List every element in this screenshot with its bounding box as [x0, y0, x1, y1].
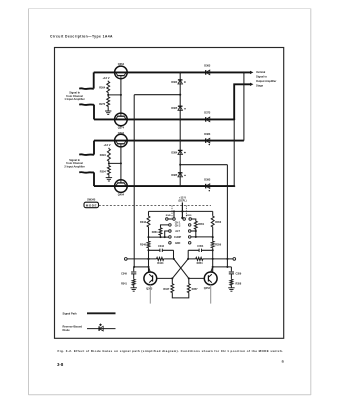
node row3/R351: [195, 230, 197, 232]
svg-text:D385: D385: [171, 174, 178, 177]
resistor R346: [147, 241, 150, 249]
wire wafer link left dashed: [171, 205, 173, 217]
svg-text:R354: R354: [197, 262, 204, 265]
wire R347 lead: [171, 278, 173, 283]
pin mark D384: [184, 152, 186, 154]
svg-text:R264: R264: [99, 86, 106, 89]
wire Q353 base: [189, 277, 205, 279]
page top edge: [29, 8, 311, 10]
wire res line left: [127, 258, 174, 260]
wire ch1 upper input squiggle: [79, 87, 94, 90]
svg-text:R351: R351: [198, 223, 205, 226]
node res line/diag left: [173, 258, 175, 260]
wire ch2 output riser: [243, 72, 245, 140]
wire diagonal left-to-right: [174, 259, 189, 279]
wire row1 to R351: [191, 219, 196, 221]
node gate drive left end: [133, 266, 135, 268]
wire row2 to R361: [161, 225, 169, 227]
svg-text:Output Amplifier: Output Amplifier: [256, 79, 276, 83]
wire Q353 emitter (fades): [210, 285, 212, 304]
svg-text:Q343: Q343: [146, 288, 153, 291]
svg-text:R270: R270: [99, 103, 106, 106]
resistor R294: [107, 148, 110, 163]
svg-text:R345: R345: [166, 214, 172, 217]
svg-text:C344: C344: [158, 245, 165, 248]
node res line/right branch: [212, 258, 214, 260]
wire ch1 upper input riser: [93, 72, 95, 88]
node res line/left branch: [147, 258, 149, 260]
resistor R358: [230, 279, 233, 286]
wire rail to row1 left stub: [173, 211, 175, 217]
svg-text:R304: R304: [100, 171, 107, 174]
wire left gate drive (to flip-flop): [133, 95, 135, 267]
wire base bracket: [172, 294, 189, 298]
wire ch1 lower input squiggle: [79, 103, 94, 106]
node wire1/diode column: [179, 71, 181, 73]
wire right collector branch: [212, 211, 214, 272]
pin mark D365: [184, 108, 185, 109]
svg-text:Q353: Q353: [204, 287, 211, 290]
svg-text:D373: D373: [204, 112, 211, 115]
node base right/R357: [188, 277, 190, 279]
diode D365: [178, 106, 183, 110]
svg-text:Circuit Description—Type 1A4A: Circuit Description—Type 1A4A: [50, 35, 113, 39]
node gate bias tap upper: [179, 94, 181, 96]
svg-text:R341: R341: [121, 282, 127, 285]
diode D363: [206, 70, 210, 75]
transistor Q394: [115, 134, 128, 147]
resistor R354: [196, 257, 204, 260]
contact row5 right: [188, 242, 191, 245]
svg-text:D383: D383: [204, 133, 211, 136]
wire +12V rail: [149, 210, 213, 212]
figure frame: [55, 48, 284, 339]
page bottom edge: [29, 394, 311, 396]
wire mode switch dashed gang line: [99, 204, 211, 206]
ground ch2: [106, 178, 112, 181]
diode D364: [178, 80, 183, 84]
capacitor C354: [199, 249, 201, 252]
node base left/R347: [171, 277, 173, 279]
wire lower gate bias tap: [180, 164, 227, 166]
transistor Q374: [115, 113, 128, 126]
wire supply stub: [181, 202, 183, 217]
wire C359 to R358: [230, 274, 232, 279]
svg-text:Q364: Q364: [118, 62, 125, 66]
svg-text:D365: D365: [171, 107, 178, 110]
pin mark D364: [184, 81, 186, 83]
contact row1 d: [189, 218, 192, 221]
node gate bias tap lower: [179, 164, 181, 166]
transistor Q353: [204, 272, 217, 285]
wire R351 tail: [195, 230, 197, 237]
capacitor C349: [131, 272, 136, 274]
wire wafer link right dashed: [185, 205, 187, 217]
page right edge: [310, 9, 312, 396]
wire bias junction ch1: [108, 94, 121, 96]
node wire4/return riser: [233, 185, 235, 187]
node left branch/cap line: [147, 249, 149, 251]
arrow output plus: [250, 71, 253, 74]
node res line/diag right: [187, 258, 189, 260]
wire Q353 collector stub: [211, 267, 213, 272]
pin mark D385: [184, 175, 185, 176]
wire diagonal right-to-left: [172, 259, 188, 279]
svg-text:R355: R355: [186, 215, 192, 217]
svg-text:Signal to: Signal to: [256, 74, 267, 78]
wire Q343 base: [156, 277, 172, 279]
node supply/wiper: [181, 217, 183, 219]
transistor Q404: [115, 180, 128, 193]
transistor Q343: [144, 272, 157, 285]
legend heavy line: [87, 312, 116, 314]
wire row3 left jog: [165, 231, 169, 237]
wire cap line left: [149, 250, 174, 259]
contact row5 left: [169, 242, 172, 245]
pin mark D383: [209, 144, 210, 145]
wire 2 (CH1 - signal line): [94, 118, 235, 120]
svg-text:CHOP: CHOP: [174, 236, 182, 239]
wire C349 to R341: [133, 274, 135, 279]
svg-text:+12 V: +12 V: [102, 76, 109, 80]
transistor Q364: [115, 66, 128, 79]
svg-text:R357: R357: [192, 288, 199, 291]
legend diode symbol: [99, 326, 103, 331]
node res line/gate riser: [226, 258, 228, 260]
wire ch2 upper input riser: [93, 141, 95, 155]
resistor R347: [171, 283, 174, 294]
wire R341 to ground: [133, 286, 135, 288]
svg-text:Fig. 3-2. Effect of Diode Gate: Fig. 3-2. Effect of Diode Gates on signa…: [58, 349, 284, 353]
svg-text:3-8: 3-8: [57, 362, 64, 367]
node left branch/res line: [147, 258, 149, 260]
svg-text:R356: R356: [215, 244, 222, 247]
diode D385: [178, 173, 183, 177]
node right branch/cap line: [212, 249, 214, 251]
svg-text:(DCPL): (DCPL): [178, 200, 186, 203]
wire gate column: [179, 72, 181, 186]
resistor R304: [107, 165, 110, 176]
svg-text:C354: C354: [197, 245, 204, 248]
resistor R343: [147, 215, 150, 228]
node wire4/diode column: [179, 185, 181, 187]
svg-text:Q404: Q404: [118, 192, 125, 196]
wire Q364 collector to Q374: [120, 79, 122, 114]
svg-text:C359: C359: [236, 273, 242, 276]
wire R358 to ground: [230, 286, 232, 288]
resistor R344: [157, 257, 165, 260]
node left branch/switch line: [147, 236, 149, 238]
wire R361 tail: [160, 236, 162, 237]
node gate drive right end: [226, 266, 228, 268]
wire R304 to ground: [108, 176, 110, 178]
wire ch1 lower input riser: [93, 105, 95, 120]
legend reverse mark: [99, 323, 102, 326]
node wire2/return riser: [233, 118, 235, 120]
node bias/collector ch1: [120, 94, 122, 96]
contact row1 c: [183, 218, 186, 221]
resistor R353: [211, 215, 214, 228]
resistor R356: [211, 241, 214, 249]
svg-text:R358: R358: [236, 282, 242, 285]
diode D393: [206, 184, 210, 189]
ground ch1: [105, 111, 111, 114]
svg-text:SW345: SW345: [87, 199, 96, 202]
resistor R264: [107, 81, 110, 94]
terminal right bias: [233, 258, 236, 261]
wire bias junction ch2: [109, 162, 121, 164]
RC network left: wire stub: [133, 267, 135, 271]
resistor R351: [194, 221, 197, 230]
svg-text:Q394: Q394: [118, 131, 125, 135]
svg-text:R346: R346: [140, 244, 147, 247]
wire row1 pair link: [168, 218, 173, 220]
wire switch line left: [149, 236, 169, 238]
svg-text:D364: D364: [171, 81, 178, 84]
node left collector: [147, 266, 149, 268]
arrow output minus: [250, 83, 253, 86]
node wire3/diode column: [179, 140, 181, 142]
svg-text:ADD: ADD: [175, 242, 181, 245]
node supply/rail: [181, 210, 183, 212]
capacitor C359: [229, 272, 234, 274]
wire res line right: [188, 258, 233, 260]
legend diode line: [87, 328, 116, 330]
node R294/R304: [108, 162, 110, 164]
svg-text:MODE: MODE: [86, 204, 97, 208]
resistor R361: [159, 227, 162, 236]
svg-text:R344: R344: [157, 262, 164, 265]
node row3 jog/switch line: [164, 236, 166, 238]
svg-text:Stage: Stage: [256, 84, 264, 88]
svg-text:D393: D393: [204, 179, 211, 182]
node wire2/diode column: [179, 118, 181, 120]
svg-text:+12 V: +12 V: [103, 143, 110, 147]
wire Q343 collector stub: [149, 267, 151, 272]
contact row4 right: [188, 236, 191, 239]
node R361/switch line: [159, 236, 161, 238]
svg-text:2 Input Amplifier: 2 Input Amplifier: [64, 165, 84, 169]
wire Q394 collector to Q404: [120, 147, 122, 180]
node rail/row1 left stub: [173, 210, 175, 212]
svg-text:ALT: ALT: [175, 230, 180, 233]
wire left collector branch: [148, 211, 150, 272]
wire 1 (CH1 + signal line): [94, 71, 251, 73]
svg-text:Signal Path: Signal Path: [63, 311, 78, 315]
page left edge: [28, 9, 30, 396]
ground right RC: [228, 288, 234, 291]
wire R357 lead: [188, 278, 190, 283]
wire ch2 lower input squiggle: [79, 171, 94, 174]
wire 3 (CH2 + signal line): [94, 140, 244, 142]
resistor R270: [107, 96, 110, 107]
wire cap line right: [188, 250, 213, 259]
wire ch2 lower input riser: [93, 172, 95, 186]
wire 4 (CH2 - signal line): [94, 185, 234, 187]
node bias/collector ch2: [120, 162, 122, 164]
svg-text:Diode: Diode: [63, 328, 71, 332]
wire upper gate bias tap: [134, 94, 180, 96]
svg-text:Vertical: Vertical: [256, 70, 266, 74]
resistor R357: [187, 283, 190, 294]
wire right collector node: [213, 266, 232, 268]
diode D384: [178, 150, 183, 154]
wire left collector node: [134, 266, 148, 268]
node R264/R270: [107, 94, 109, 96]
pin mark D393: [209, 190, 210, 191]
svg-text:R353: R353: [215, 221, 222, 224]
wire row3 right to R351: [191, 230, 196, 232]
wire return riser upper (bold): [234, 84, 250, 119]
wire ch2 upper input squiggle: [79, 153, 94, 156]
contact row3 right: [188, 230, 191, 233]
svg-text:CH 2: CH 2: [175, 225, 181, 228]
svg-text:1 Input Amplifier: 1 Input Amplifier: [64, 97, 84, 101]
terminal left bias: [124, 258, 127, 261]
node wire1/output riser: [243, 71, 245, 73]
wire Q343 emitter (fades): [149, 285, 151, 304]
diode D373: [206, 117, 210, 122]
ground left RC: [131, 288, 137, 291]
wire return riser lower: [233, 119, 235, 186]
capacitor C344: [160, 249, 162, 252]
svg-text:R361: R361: [152, 231, 159, 234]
svg-text:Q374: Q374: [118, 125, 125, 129]
contact row3 left: [169, 230, 172, 233]
contact row1 b: [173, 218, 176, 221]
node R351/switch line: [195, 236, 197, 238]
mode switch box: [84, 202, 99, 208]
contact row1 a: [166, 218, 169, 221]
svg-text:R294: R294: [100, 154, 107, 157]
contact row2 right: [188, 224, 191, 227]
svg-text:C349: C349: [121, 273, 127, 276]
svg-text:D363: D363: [204, 65, 211, 68]
node wire4/gate riser: [226, 185, 228, 187]
diode D383: [206, 138, 210, 143]
RC network right: wire stub: [230, 267, 232, 271]
resistor R341: [132, 279, 135, 286]
contact row4 left: [169, 236, 172, 239]
wire right gate drive (to flip-flop): [226, 165, 228, 267]
svg-text:D384: D384: [171, 151, 178, 154]
contact row2 left: [169, 224, 172, 227]
svg-text:R343: R343: [140, 221, 147, 224]
svg-text:R347: R347: [163, 288, 170, 291]
wire switch line right: [191, 236, 213, 238]
node right branch/switch line: [212, 236, 214, 238]
node right collector: [212, 266, 214, 268]
wire R270 to ground: [107, 107, 109, 111]
